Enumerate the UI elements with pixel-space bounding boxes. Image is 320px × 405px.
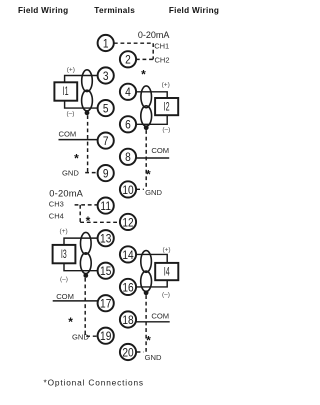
svg-text:15: 15 — [100, 265, 111, 278]
wire dashed: I2 shield drain to GND terminal 10 — [145, 130, 147, 187]
wire dashed: bracket to terminal 12 — [80, 221, 120, 223]
terminal 9 — [98, 165, 114, 181]
svg-text:12: 12 — [122, 216, 133, 229]
svg-text:CH1: CH1 — [154, 41, 169, 50]
svg-text:Terminals: Terminals — [94, 6, 135, 15]
terminal 19 — [98, 328, 114, 344]
svg-text:GND: GND — [145, 353, 162, 362]
svg-text:6: 6 — [125, 119, 131, 132]
terminal 4 — [120, 84, 136, 100]
terminal 5 — [98, 100, 114, 116]
wire dashed: terminal 1 to CH1 bracket — [114, 42, 153, 44]
svg-text:8: 8 — [125, 151, 131, 164]
svg-text:I4: I4 — [164, 266, 170, 279]
wire dashed: CH3/CH4 bracket vertical — [79, 205, 81, 222]
terminal 7 — [98, 133, 114, 149]
terminal 14 — [120, 246, 136, 262]
svg-text:(–): (–) — [60, 276, 68, 283]
svg-text:7: 7 — [103, 135, 109, 148]
wire dashed: I4 shield drain to GND terminal 20 — [145, 295, 147, 353]
terminal 13 — [98, 230, 114, 246]
terminal 3 — [98, 67, 114, 83]
svg-text:COM: COM — [56, 292, 74, 301]
svg-text:14: 14 — [122, 249, 133, 262]
svg-text:1: 1 — [103, 38, 109, 51]
svg-text:(–): (–) — [162, 291, 170, 298]
wire: I3 negative lead to terminal 15 — [64, 263, 98, 270]
wire: I4 positive lead to terminal 14 — [136, 254, 168, 263]
terminal 17 — [98, 295, 114, 311]
svg-text:13: 13 — [100, 233, 111, 246]
terminal 15 — [98, 263, 114, 279]
svg-text:CH3: CH3 — [49, 200, 64, 209]
svg-text:(+): (+) — [162, 82, 170, 89]
wire: I2 positive lead to terminal 4 — [136, 92, 168, 98]
svg-text:2: 2 — [125, 54, 131, 67]
svg-text:5: 5 — [103, 103, 109, 116]
twisted pair shield loops (I4) — [141, 251, 152, 292]
twisted pair shield loops (I2) — [141, 86, 152, 126]
svg-text:(+): (+) — [162, 246, 170, 253]
svg-text:(+): (+) — [60, 228, 68, 235]
svg-text:*: * — [74, 152, 79, 166]
svg-text:10: 10 — [122, 184, 133, 197]
svg-text:(+): (+) — [67, 67, 75, 74]
svg-text:18: 18 — [122, 314, 133, 327]
terminal 11 — [98, 198, 114, 214]
terminal 16 — [120, 279, 136, 295]
wire dashed: I3 shield drain to GND terminal 19 — [84, 278, 86, 336]
wire dashed: CH3 to terminal 11 — [75, 204, 98, 206]
twisted pair shield loops (I1) — [82, 70, 93, 111]
svg-text:0-20mA: 0-20mA — [49, 189, 83, 199]
wire: I2 negative lead to terminal 6 — [136, 115, 168, 124]
svg-text:11: 11 — [100, 200, 111, 213]
wire dashed: CH1/CH2 bracket vertical — [152, 43, 154, 59]
wire dashed: GND to terminal 9 — [85, 172, 97, 174]
svg-text:Field Wiring: Field Wiring — [18, 6, 68, 15]
svg-text:COM: COM — [151, 312, 169, 321]
junction: I2 shield drain — [144, 125, 149, 130]
device I1 (transmitter box) — [54, 82, 77, 100]
svg-text:(–): (–) — [67, 111, 75, 118]
junction: I3 shield drain — [83, 273, 88, 278]
terminal 8 — [120, 149, 136, 165]
svg-text:3: 3 — [103, 70, 109, 83]
terminal 10 — [120, 181, 136, 197]
terminal 6 — [120, 116, 136, 132]
svg-text:*: * — [68, 315, 73, 329]
device I4 (transmitter box) — [155, 263, 178, 280]
svg-text:0-20mA: 0-20mA — [138, 30, 170, 40]
svg-text:*: * — [141, 68, 146, 82]
svg-text:4: 4 — [125, 86, 131, 99]
svg-text:17: 17 — [100, 298, 111, 311]
wire: I3 positive lead to terminal 13 — [64, 238, 98, 245]
wire: COM to terminal 17 — [53, 300, 98, 302]
svg-text:I1: I1 — [63, 86, 69, 99]
twisted pair shield loops (I3) — [80, 232, 91, 273]
wire dashed: terminal 2 to CH2 bracket — [136, 58, 153, 60]
svg-text:GND: GND — [62, 168, 79, 177]
wire dashed: terminal 10 to GND — [136, 188, 144, 190]
device I3 (transmitter box) — [53, 245, 76, 263]
wire: I1 negative lead to terminal 5 — [65, 101, 98, 108]
svg-text:GND: GND — [145, 188, 162, 197]
svg-text:COM: COM — [151, 146, 169, 155]
svg-text:I2: I2 — [164, 101, 170, 114]
svg-text:19: 19 — [100, 330, 111, 343]
wire: terminal 18 to COM — [136, 321, 170, 323]
wire dashed: GND to terminal 19 — [86, 335, 97, 337]
wire: terminal 8 to COM — [136, 157, 170, 159]
svg-text:*Optional Connections: *Optional Connections — [44, 378, 144, 388]
terminal 12 — [120, 214, 136, 230]
terminal 2 — [120, 51, 136, 67]
svg-text:*: * — [146, 333, 151, 347]
wire dashed: terminal 20 to GND — [137, 351, 144, 353]
svg-text:20: 20 — [122, 347, 133, 360]
wire: I4 negative lead to terminal 16 — [136, 280, 168, 287]
svg-text:COM: COM — [59, 130, 77, 139]
terminal 20 — [120, 344, 136, 360]
junction: I4 shield drain — [144, 290, 149, 295]
junction: I1 shield drain — [85, 110, 90, 115]
svg-text:16: 16 — [122, 281, 133, 294]
svg-text:CH4: CH4 — [49, 212, 64, 221]
svg-text:CH2: CH2 — [155, 55, 170, 64]
svg-text:I3: I3 — [61, 248, 67, 261]
terminal 18 — [120, 311, 136, 327]
svg-text:*: * — [86, 214, 91, 228]
svg-text:(–): (–) — [162, 127, 170, 134]
svg-text:Field Wiring: Field Wiring — [169, 6, 219, 15]
wire dashed: I1 shield drain to GND terminal 9 — [87, 115, 89, 172]
svg-text:9: 9 — [103, 168, 109, 181]
wire: I1 positive lead to terminal 3 — [65, 76, 98, 83]
wire: COM to terminal 7 — [59, 139, 98, 141]
svg-text:*: * — [146, 168, 151, 182]
device I2 (transmitter box) — [155, 98, 178, 115]
terminal 1 — [98, 35, 114, 51]
